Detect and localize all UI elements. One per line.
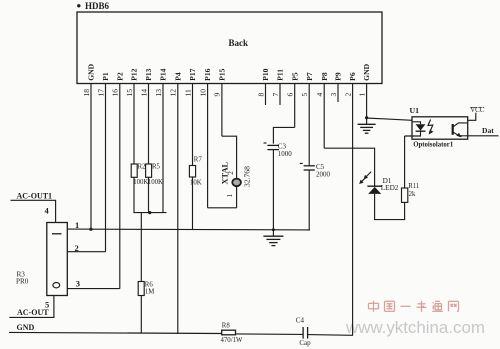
svg-text:7: 7 xyxy=(271,93,280,97)
pin 2 P6 wire xyxy=(343,72,357,335)
watermark text www.yktchina.com xyxy=(345,318,485,337)
svg-text:1000: 1000 xyxy=(278,150,293,158)
svg-text:1: 1 xyxy=(225,194,234,198)
wire R5 bottom xyxy=(148,177,150,212)
LED D1 symbol xyxy=(359,172,382,194)
pin 5 P7 wire xyxy=(300,72,314,165)
potentiometer R3 body xyxy=(47,223,68,296)
wire P16 to crystal bottom xyxy=(208,207,237,209)
wire ground rail left xyxy=(9,332,222,333)
pin 13 P14 wire xyxy=(154,68,168,212)
svg-text:8: 8 xyxy=(256,93,265,97)
svg-text:100K: 100K xyxy=(148,179,163,186)
wire C3 to mid rail xyxy=(272,150,274,230)
svg-text:10K: 10K xyxy=(190,180,202,187)
crystal Y1 XTAL symbol xyxy=(232,179,241,208)
svg-text:15: 15 xyxy=(125,89,134,97)
wire R11 to U1 cathode xyxy=(404,136,406,188)
svg-text:1: 1 xyxy=(75,220,79,230)
svg-text:GND: GND xyxy=(17,323,35,332)
ground symbol (mid rail) xyxy=(263,230,283,246)
capacitor C4 xyxy=(296,317,311,347)
wire AC-OUT1 xyxy=(11,200,56,222)
pin 17 P1 wire xyxy=(96,72,110,252)
svg-text:Optoisolator1: Optoisolator1 xyxy=(413,141,454,148)
svg-text:6: 6 xyxy=(286,93,295,97)
crystal pin 2 label xyxy=(226,171,235,175)
resistor R7 xyxy=(189,157,202,187)
pin 4 P8 wire xyxy=(315,72,329,148)
ground symbol (pin 1) xyxy=(358,118,376,134)
label HDB6 xyxy=(85,1,110,11)
svg-text:P15: P15 xyxy=(218,68,227,80)
wire R3 pin2 to P1 xyxy=(67,251,105,253)
svg-text:R11: R11 xyxy=(408,183,419,190)
svg-text:P2: P2 xyxy=(115,72,124,81)
svg-text:www.yktchina.com: www.yktchina.com xyxy=(345,318,485,337)
svg-text:GND: GND xyxy=(87,63,96,80)
resistor R6 xyxy=(138,282,154,296)
svg-text:HDB6: HDB6 xyxy=(85,1,110,11)
svg-text:P1: P1 xyxy=(101,72,110,81)
svg-text:AC-OUT: AC-OUT xyxy=(17,308,49,317)
svg-text:P11: P11 xyxy=(276,69,285,81)
svg-text:2: 2 xyxy=(226,171,235,175)
wire GND pin1 to U1 anode xyxy=(367,118,412,120)
pin 15 P12 wire xyxy=(125,68,139,164)
power VCC xyxy=(468,107,485,120)
watermark text 中国一卡通网 (vector) xyxy=(369,301,459,312)
svg-text:U1: U1 xyxy=(410,106,420,115)
resistor R11 xyxy=(402,183,420,202)
pin 2 label xyxy=(75,243,79,253)
wire Dat output xyxy=(459,135,498,137)
svg-text:1M: 1M xyxy=(145,289,154,296)
junction node GND pin1 xyxy=(365,116,368,119)
wire R7 bottom to mid rail xyxy=(192,177,194,230)
svg-text:P7: P7 xyxy=(305,72,314,81)
op-amp U1 optoisolator body xyxy=(412,117,468,139)
resistor R2 xyxy=(131,164,137,177)
svg-text:R6: R6 xyxy=(145,282,154,289)
svg-text:GND: GND xyxy=(362,63,371,80)
wire R6 to ground rail xyxy=(140,296,142,334)
U1 internal LED xyxy=(405,122,426,136)
svg-text:470/1W: 470/1W xyxy=(221,337,243,344)
label Dat xyxy=(482,126,494,135)
svg-text:P5: P5 xyxy=(290,72,299,81)
wire D1 to R11 xyxy=(375,194,405,220)
crystal pin 1 label xyxy=(225,194,234,198)
label AC-OUT1 xyxy=(17,192,53,201)
wire P15 jog to crystal top xyxy=(222,136,237,178)
svg-text:P4: P4 xyxy=(173,72,182,81)
svg-text:R8: R8 xyxy=(222,322,231,329)
svg-text:4: 4 xyxy=(315,93,324,97)
svg-text:12: 12 xyxy=(169,89,178,97)
wire R2 bottom xyxy=(133,177,135,212)
svg-text:P6: P6 xyxy=(348,72,357,81)
svg-text:C4: C4 xyxy=(296,317,305,325)
wire mid rail (R3 pin1 to C5) xyxy=(67,228,310,231)
wire tie R2 R5 P14 xyxy=(133,212,166,214)
svg-text:11: 11 xyxy=(183,89,192,97)
pin 4 label xyxy=(45,206,50,216)
svg-text:P9: P9 xyxy=(334,72,343,81)
svg-text:P13: P13 xyxy=(144,68,153,80)
pin 14 P13 wire xyxy=(139,68,153,164)
U1 light arrow xyxy=(428,120,433,135)
svg-text:100K: 100K xyxy=(133,179,148,186)
node marker dot HDB6 xyxy=(77,4,80,7)
resistor R8 xyxy=(221,322,243,344)
svg-text:5: 5 xyxy=(300,93,309,97)
svg-text:P17: P17 xyxy=(188,68,197,80)
svg-text:2: 2 xyxy=(343,93,352,97)
svg-text:2k: 2k xyxy=(409,191,416,198)
svg-text:Back: Back xyxy=(229,38,249,48)
resistor R5 xyxy=(146,164,152,177)
label R3 PR0 xyxy=(16,271,29,286)
IC U-main HDB6 body xyxy=(77,12,382,84)
label GND xyxy=(17,323,35,332)
label Back xyxy=(229,38,249,48)
label 32.768 xyxy=(243,166,252,187)
pin 1 label xyxy=(75,220,79,230)
svg-text:VCC: VCC xyxy=(470,107,484,114)
svg-text:Dat: Dat xyxy=(482,126,494,135)
label Optoisolator1 xyxy=(413,141,454,148)
wire ground rail mid xyxy=(236,333,304,336)
pin 5 label xyxy=(45,299,49,309)
svg-text:16: 16 xyxy=(111,89,120,97)
svg-text:9: 9 xyxy=(213,93,222,97)
svg-text:Cap: Cap xyxy=(299,339,311,347)
capacitor C5 xyxy=(300,163,331,179)
pin 8 P10 wire xyxy=(256,68,270,105)
svg-text:R5: R5 xyxy=(152,164,161,171)
pin 3 label xyxy=(76,278,80,288)
pin 10 P16 wire xyxy=(198,68,212,207)
label U1 xyxy=(410,106,420,115)
svg-text:PR0: PR0 xyxy=(16,278,29,286)
pin 9 P15 wire xyxy=(213,68,227,136)
svg-text:3: 3 xyxy=(76,278,80,288)
wire branch down to R6 xyxy=(140,213,142,282)
wire P8 to D1 xyxy=(324,148,374,186)
pin 3 P9 wire xyxy=(329,72,343,102)
junction node C3 ground xyxy=(272,228,275,231)
svg-text:P10: P10 xyxy=(261,68,270,80)
svg-text:32.768: 32.768 xyxy=(243,166,252,187)
pin 11 P17 wire xyxy=(183,68,197,165)
U1 phototransistor xyxy=(453,123,468,137)
pin 18 GND wire xyxy=(82,63,96,229)
svg-text:2000: 2000 xyxy=(316,171,331,179)
svg-text:R2: R2 xyxy=(138,164,147,171)
svg-text:1: 1 xyxy=(357,93,366,97)
junction node at GND pin line xyxy=(89,228,92,231)
svg-text:LED2: LED2 xyxy=(381,184,399,192)
pin 7 P11 wire xyxy=(271,69,285,105)
svg-text:P16: P16 xyxy=(203,68,212,80)
pin 1 GND wire xyxy=(357,63,371,117)
wire R3 pin5 to AC-OUT xyxy=(9,296,54,318)
svg-text:P12: P12 xyxy=(130,68,139,80)
svg-text:14: 14 xyxy=(139,89,148,97)
pin 16 P2 wire xyxy=(111,72,125,288)
label AC-OUT xyxy=(17,308,49,317)
svg-text:AC-OUT1: AC-OUT1 xyxy=(17,192,53,201)
capacitor C3 xyxy=(264,143,293,158)
pin 12 P4 wire xyxy=(169,72,183,334)
svg-text:P8: P8 xyxy=(320,72,329,81)
wire R3 pin3 to P2 xyxy=(67,288,120,290)
svg-text:10: 10 xyxy=(198,89,207,97)
pin 6 P5 wire xyxy=(286,72,300,127)
label R2 R5 values xyxy=(133,164,163,186)
junction node R5 tie xyxy=(148,211,151,214)
wire ground rail right xyxy=(308,334,353,337)
svg-text:R7: R7 xyxy=(194,157,203,164)
svg-text:13: 13 xyxy=(154,89,163,97)
svg-text:P14: P14 xyxy=(159,68,168,80)
label XTAL xyxy=(221,161,230,184)
wire P5 to C3 xyxy=(273,127,294,143)
wire C5 to mid rail end xyxy=(308,170,310,230)
svg-text:17: 17 xyxy=(96,89,105,97)
svg-text:3: 3 xyxy=(329,93,338,97)
svg-text:18: 18 xyxy=(82,89,91,97)
label D1 LED2 xyxy=(381,177,399,192)
